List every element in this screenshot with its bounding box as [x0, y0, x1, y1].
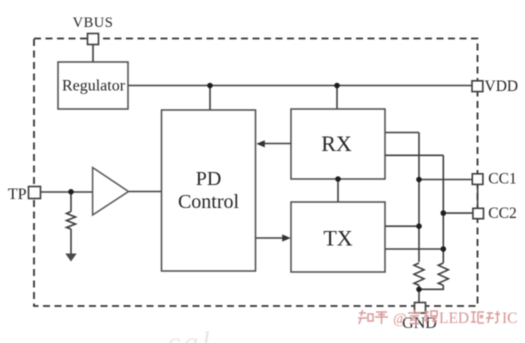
svg-text:GND: GND — [402, 315, 437, 332]
svg-text:TP: TP — [8, 186, 27, 203]
svg-text:RX: RX — [321, 131, 352, 156]
svg-text:Control: Control — [178, 191, 240, 213]
svg-text:PD: PD — [196, 168, 222, 190]
svg-text:CC1: CC1 — [488, 171, 516, 188]
svg-text:TX: TX — [323, 225, 352, 250]
svg-text:VDD: VDD — [485, 78, 519, 95]
svg-text:VBUS: VBUS — [73, 15, 114, 31]
svg-text:@: @ — [393, 311, 407, 327]
svg-text:IC: IC — [502, 310, 518, 327]
svg-text:CC2: CC2 — [488, 205, 516, 222]
svg-text:cal: cal — [167, 326, 213, 343]
svg-text:LED: LED — [439, 310, 469, 327]
svg-text:Regulator: Regulator — [62, 78, 126, 95]
